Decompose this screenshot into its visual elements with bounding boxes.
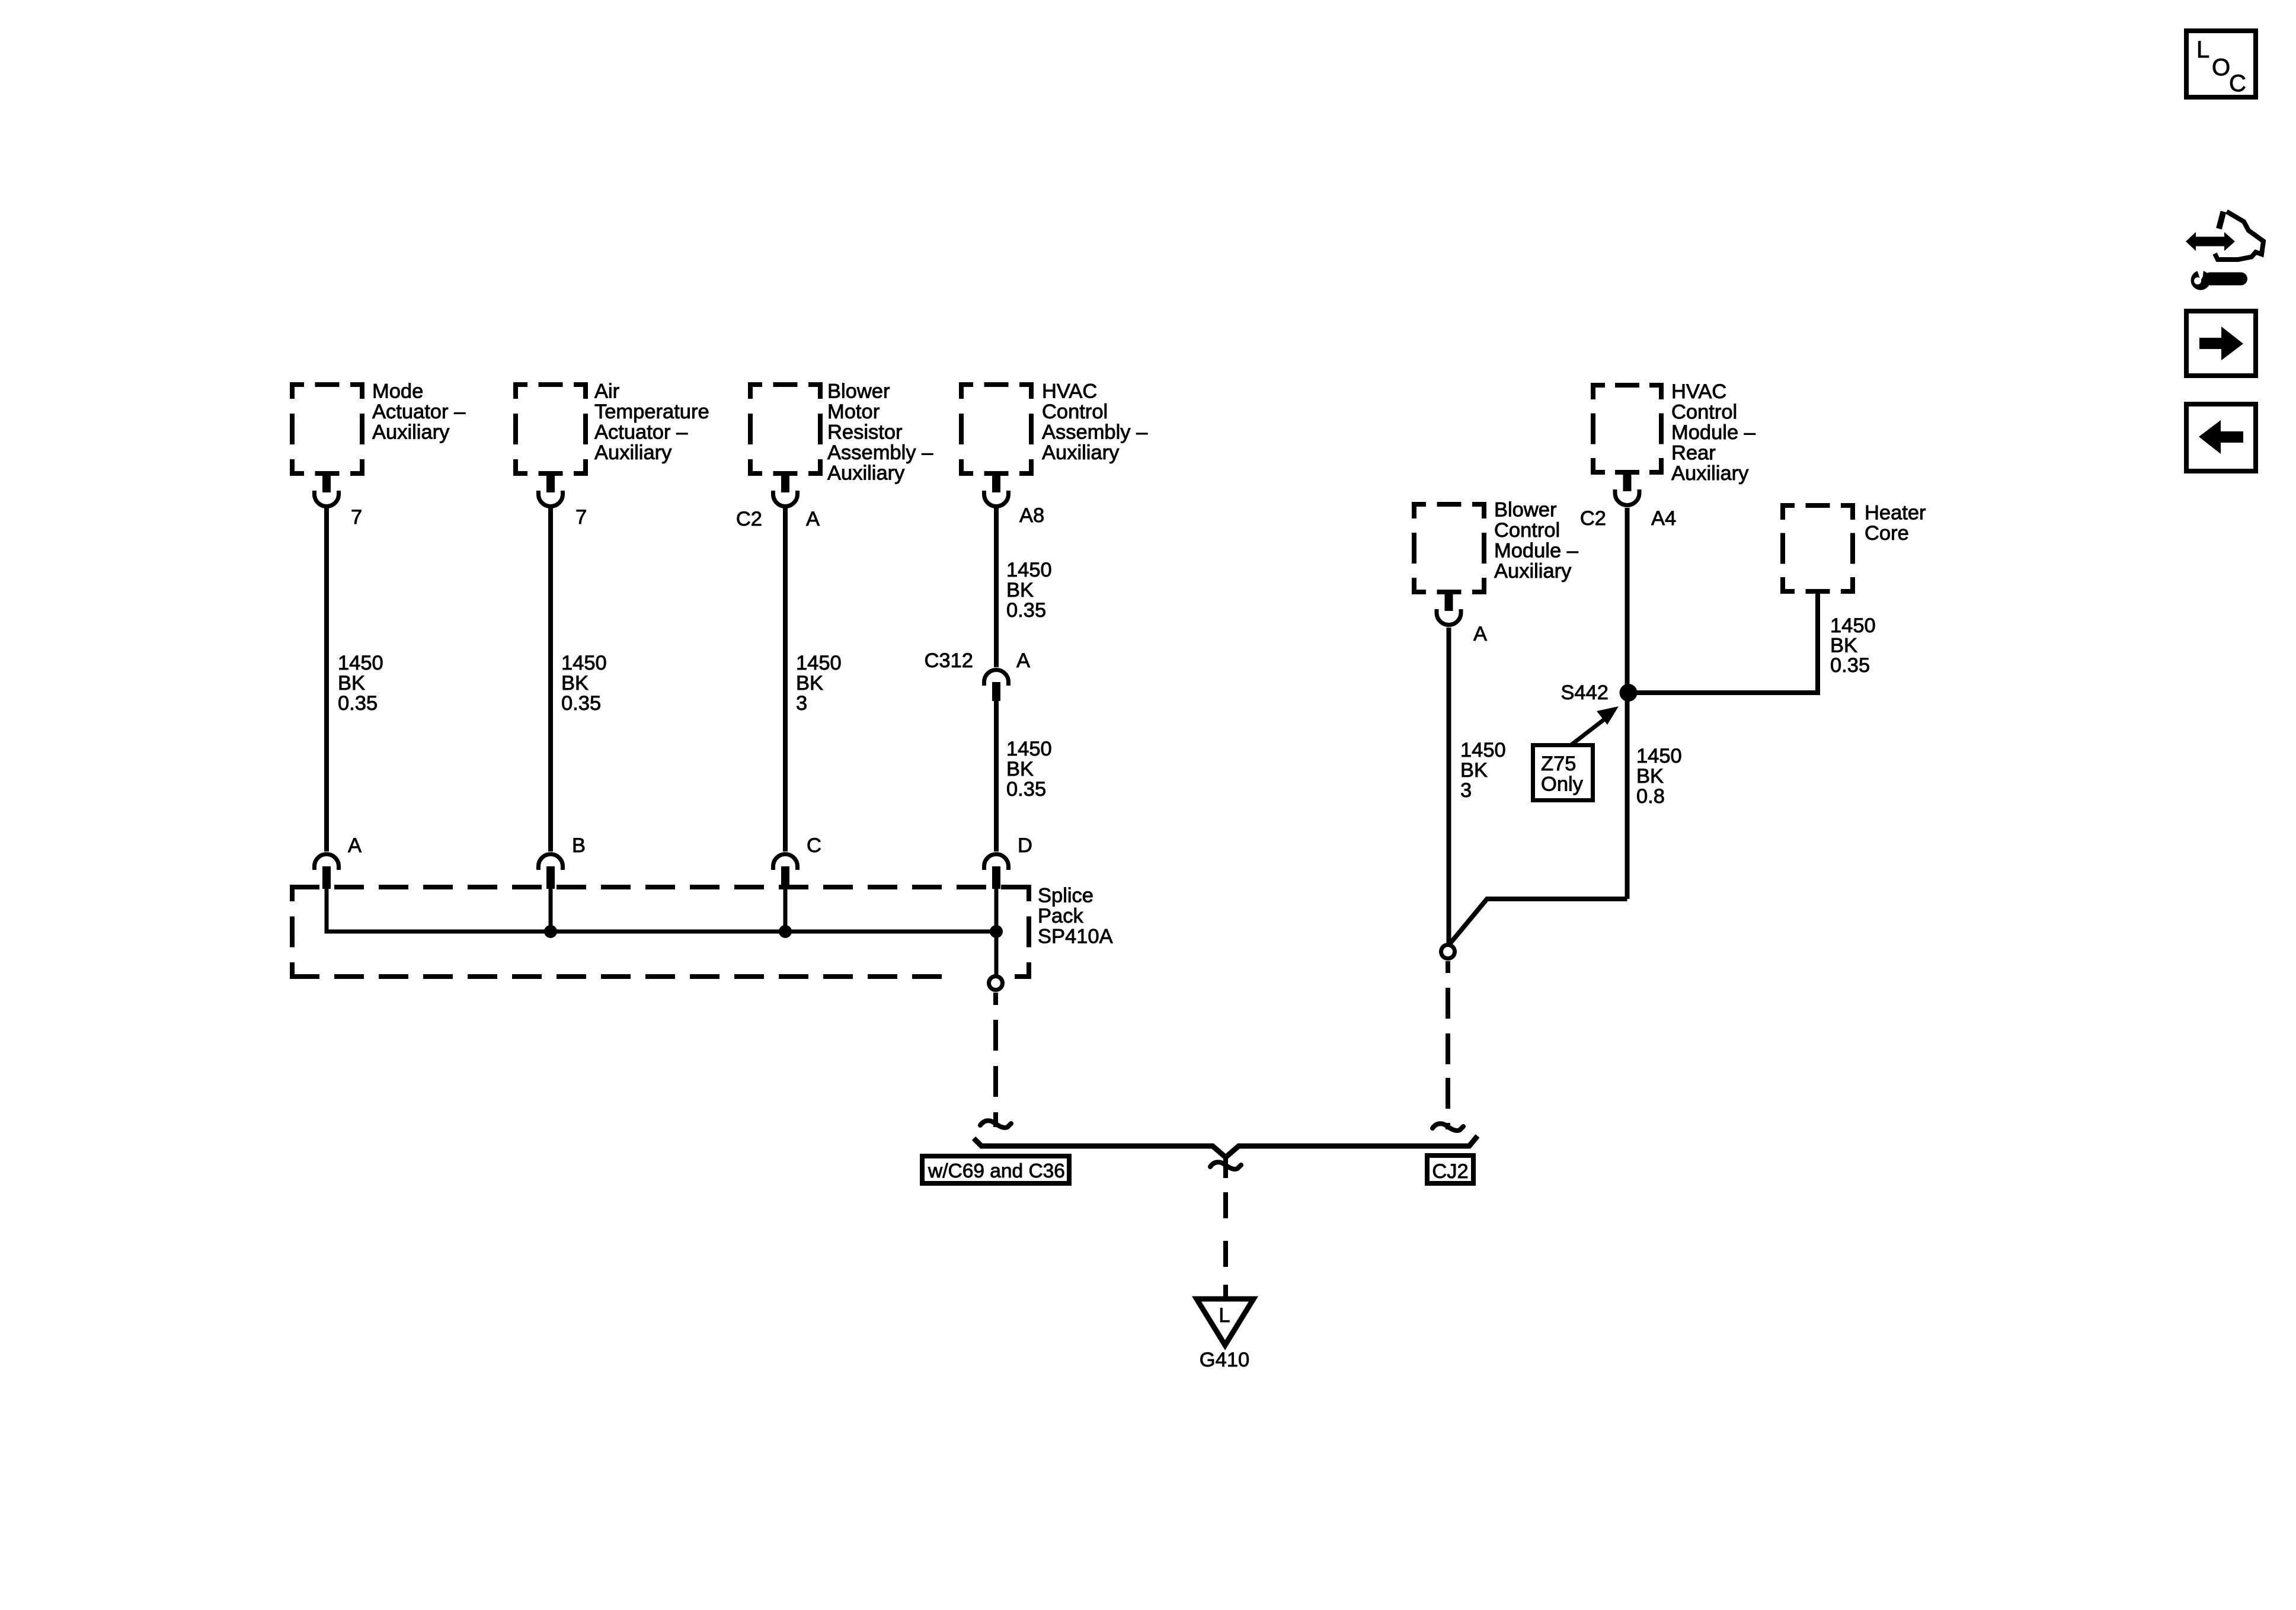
- svg-text:Control: Control: [1494, 519, 1560, 542]
- off-page squiggle on left ground wire: [980, 1121, 1011, 1128]
- junction dot at C: [779, 925, 792, 938]
- svg-text:HVAC: HVAC: [1042, 380, 1097, 403]
- component box: Blower Control Module - Auxiliary: [1412, 502, 1486, 594]
- splice connector pin C: [773, 854, 798, 889]
- svg-text:Blower: Blower: [1494, 499, 1556, 521]
- wire 1450 BK 3 from Blower Control Module pin A: [1447, 628, 1451, 943]
- svg-text:1450: 1450: [1460, 739, 1506, 761]
- in-line connector C312 pin A: [984, 670, 1009, 702]
- wire 1450 BK 0.35 from Heater Core to S442: [1627, 594, 1818, 693]
- ground drop wire below bus: [1223, 1156, 1228, 1178]
- svg-text:L: L: [1219, 1304, 1230, 1327]
- svg-text:Auxiliary: Auxiliary: [594, 441, 672, 464]
- component box: Heater Core: [1780, 503, 1855, 594]
- svg-text:Module –: Module –: [1671, 421, 1756, 444]
- svg-text:Control: Control: [1042, 401, 1108, 423]
- svg-text:Module –: Module –: [1494, 540, 1579, 562]
- svg-text:SP410A: SP410A: [1038, 926, 1113, 948]
- wire jog from S442 branch joining blower wire: [1450, 899, 1627, 944]
- svg-text:BK: BK: [796, 672, 823, 694]
- svg-text:3: 3: [1460, 779, 1472, 802]
- splice S442 junction dot: [1620, 684, 1638, 702]
- svg-text:Only: Only: [1541, 773, 1584, 796]
- next-page arrow button: [2186, 311, 2256, 376]
- svg-text:Auxiliary: Auxiliary: [372, 421, 450, 444]
- svg-text:BK: BK: [1006, 758, 1034, 780]
- svg-text:C: C: [2229, 71, 2246, 97]
- svg-text:Core: Core: [1865, 522, 1909, 545]
- svg-text:C: C: [807, 834, 821, 857]
- ground symbol G410: [1197, 1299, 1253, 1345]
- wire 1450 BK 0.35 from C312 to splice D: [994, 701, 999, 852]
- chassis harness bus line: [974, 1136, 1478, 1157]
- svg-text:C2: C2: [736, 508, 762, 530]
- svg-text:Rear: Rear: [1671, 442, 1716, 465]
- off-page squiggle on right ground wire: [1432, 1124, 1463, 1131]
- svg-text:Temperature: Temperature: [594, 401, 709, 423]
- svg-text:0.35: 0.35: [338, 692, 378, 715]
- svg-text:Actuator –: Actuator –: [594, 421, 688, 444]
- svg-text:BK: BK: [561, 672, 589, 694]
- svg-text:Air: Air: [594, 380, 619, 403]
- connector pin A of Blower Control Module: [1437, 594, 1461, 625]
- splice output terminal (open circle): [989, 977, 1003, 990]
- wire 1450 BK 0.8 from HVAC Control Module A4 to S442: [1625, 508, 1630, 899]
- svg-text:L: L: [2196, 37, 2209, 63]
- dashed ground wire to CJ2: [1446, 961, 1450, 1129]
- svg-text:Motor: Motor: [827, 401, 880, 423]
- svg-text:A8: A8: [1019, 504, 1044, 527]
- wire stub D through bus down to splice output: [994, 889, 999, 975]
- component box: HVAC Control Assembly - Auxiliary: [959, 382, 1034, 476]
- dashed ground drop wire: [1223, 1192, 1228, 1298]
- svg-text:0.35: 0.35: [1830, 654, 1870, 677]
- svg-text:7: 7: [351, 506, 362, 529]
- svg-text:Heater: Heater: [1865, 502, 1926, 524]
- svg-text:0.35: 0.35: [1006, 778, 1046, 801]
- svg-text:1450: 1450: [561, 652, 607, 674]
- svg-text:BK: BK: [1460, 759, 1488, 782]
- svg-text:A: A: [1473, 623, 1487, 645]
- connector pin 7 of Mode Actuator: [315, 476, 339, 507]
- svg-text:A: A: [348, 834, 362, 857]
- svg-text:1450: 1450: [338, 652, 383, 674]
- wire 1450 BK 3 from Blower Motor Resistor pin A to splice C: [783, 508, 788, 852]
- svg-text:Mode: Mode: [372, 380, 423, 403]
- svg-text:1450: 1450: [1636, 745, 1682, 767]
- callout box Z75 Only: [1533, 745, 1593, 801]
- svg-text:Splice: Splice: [1038, 885, 1093, 907]
- svg-text:Pack: Pack: [1038, 905, 1083, 927]
- component box: HVAC Control Module - Rear Auxiliary: [1591, 383, 1664, 475]
- junction dot at B: [544, 925, 557, 938]
- svg-text:C312: C312: [925, 649, 973, 672]
- dashed ground wire from splice pack: [993, 993, 998, 1127]
- connector pin 7 of Air Temperature Actuator: [539, 476, 563, 507]
- wire stub C into bus: [784, 889, 788, 934]
- svg-text:Actuator –: Actuator –: [372, 401, 466, 423]
- svg-text:7: 7: [575, 506, 587, 529]
- svg-text:Control: Control: [1671, 401, 1737, 424]
- box CJ2: [1427, 1156, 1473, 1183]
- connector C2 pin A4 of HVAC Control Module: [1615, 475, 1639, 505]
- svg-text:Auxiliary: Auxiliary: [827, 462, 905, 485]
- component box: Air Temperature Actuator - Auxiliary: [513, 382, 588, 476]
- svg-text:A: A: [1016, 649, 1030, 672]
- splice connector pin A: [315, 854, 339, 889]
- svg-text:Auxiliary: Auxiliary: [1494, 560, 1572, 582]
- svg-text:C2: C2: [1580, 507, 1606, 530]
- connector C2 pin A of Blower Motor Resistor: [773, 476, 798, 507]
- box w/C69 and C36: [922, 1156, 1069, 1183]
- svg-text:0.8: 0.8: [1636, 785, 1665, 808]
- output terminal (open circle) of blower ground wire: [1441, 945, 1455, 959]
- wire 1450 BK 0.35 from Mode Actuator pin 7 to splice A: [324, 508, 329, 852]
- off-page squiggle on ground drop: [1210, 1162, 1241, 1169]
- svg-text:Auxiliary: Auxiliary: [1042, 441, 1120, 464]
- svg-text:S442: S442: [1560, 681, 1609, 704]
- splice bus wire from A to D: [327, 889, 996, 932]
- svg-text:B: B: [572, 834, 586, 857]
- svg-text:O: O: [2212, 55, 2230, 81]
- svg-text:BK: BK: [1006, 579, 1034, 601]
- connector pin A8 of HVAC Control Assembly: [984, 476, 1009, 507]
- svg-text:Blower: Blower: [827, 380, 890, 403]
- component box: Blower Motor Resistor Assembly - Auxiliary: [748, 382, 823, 476]
- svg-text:D: D: [1018, 834, 1032, 857]
- svg-text:3: 3: [796, 692, 807, 715]
- diagnostic double-arrow icon: [2186, 232, 2235, 251]
- svg-text:1450: 1450: [796, 652, 842, 674]
- wire 1450 BK 0.35 from HVAC Control Assembly pin A8 to C312: [994, 508, 999, 667]
- previous-page arrow button: [2186, 404, 2256, 471]
- svg-text:1450: 1450: [1006, 738, 1052, 760]
- wire 1450 BK 0.35 from Air Temperature Actuator pin 7 to splice B: [548, 508, 553, 852]
- junction dot at D: [990, 925, 1003, 938]
- svg-text:G410: G410: [1200, 1349, 1249, 1371]
- svg-text:1450: 1450: [1006, 559, 1052, 581]
- wire stub B into bus: [549, 889, 553, 934]
- svg-text:w/C69 and C36: w/C69 and C36: [928, 1160, 1065, 1182]
- svg-text:0.35: 0.35: [1006, 599, 1046, 622]
- LOC legend box: [2186, 31, 2256, 97]
- svg-text:BK: BK: [1830, 635, 1857, 657]
- svg-text:Assembly –: Assembly –: [1042, 421, 1148, 444]
- svg-text:BK: BK: [338, 672, 365, 694]
- component box: Mode Actuator - Auxiliary: [290, 382, 364, 476]
- svg-text:Auxiliary: Auxiliary: [1671, 462, 1749, 485]
- svg-text:A4: A4: [1651, 507, 1676, 530]
- svg-text:Z75: Z75: [1541, 753, 1576, 775]
- splice connector pin B: [539, 854, 563, 889]
- splice connector pin D: [984, 854, 1009, 889]
- svg-text:CJ2: CJ2: [1432, 1160, 1468, 1183]
- arrow from Z75 Only to S442: [1571, 717, 1607, 745]
- diagnostic icon outline shape: [2219, 212, 2224, 229]
- svg-text:Resistor: Resistor: [827, 421, 903, 444]
- svg-text:0.35: 0.35: [561, 692, 601, 715]
- splice pack SP410A dashed box: [290, 885, 1031, 979]
- svg-text:A: A: [806, 508, 820, 530]
- svg-text:HVAC: HVAC: [1671, 380, 1726, 403]
- svg-text:BK: BK: [1636, 765, 1664, 788]
- svg-text:Assembly –: Assembly –: [827, 441, 933, 464]
- svg-text:1450: 1450: [1830, 614, 1876, 637]
- diagnostic icon wrench: [2191, 268, 2248, 290]
